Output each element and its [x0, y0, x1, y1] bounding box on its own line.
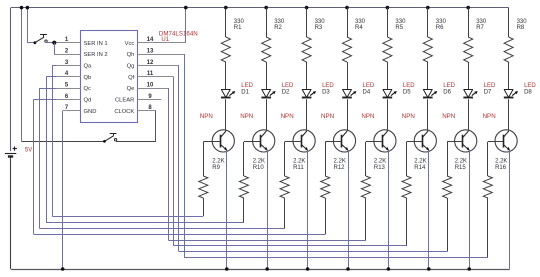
svg-text:Qc: Qc [84, 86, 92, 92]
svg-text:D3: D3 [322, 89, 330, 95]
svg-text:Qf: Qf [128, 75, 135, 81]
svg-text:NPN: NPN [442, 113, 455, 120]
svg-text:D4: D4 [363, 89, 371, 95]
svg-text:CLEAR: CLEAR [115, 98, 134, 104]
svg-text:R1: R1 [234, 25, 242, 31]
svg-text:2.2K: 2.2K [293, 159, 305, 165]
svg-text:5V: 5V [25, 148, 32, 154]
svg-text:R7: R7 [476, 25, 484, 31]
svg-text:R6: R6 [436, 25, 444, 31]
svg-text:2.2K: 2.2K [334, 159, 346, 165]
svg-text:2.2K: 2.2K [374, 159, 386, 165]
svg-text:2.2K: 2.2K [495, 159, 507, 165]
svg-text:NPN: NPN [281, 113, 294, 120]
svg-text:LED: LED [322, 83, 334, 89]
svg-text:R2: R2 [274, 25, 282, 31]
svg-text:R4: R4 [355, 25, 363, 31]
svg-text:Qa: Qa [84, 64, 93, 70]
svg-text:2.2K: 2.2K [455, 159, 467, 165]
svg-text:Qe: Qe [127, 86, 135, 92]
svg-text:NPN: NPN [321, 113, 334, 120]
svg-text:LED: LED [443, 83, 455, 89]
svg-text:R13: R13 [374, 165, 386, 171]
svg-text:Qh: Qh [127, 52, 135, 58]
svg-text:R14: R14 [414, 165, 426, 171]
svg-text:LED: LED [363, 83, 375, 89]
svg-text:R15: R15 [455, 165, 467, 171]
svg-text:D8: D8 [524, 89, 532, 95]
svg-text:R3: R3 [315, 25, 323, 31]
svg-text:2.2K: 2.2K [253, 159, 265, 165]
svg-text:LED: LED [241, 83, 253, 89]
svg-text:NPN: NPN [361, 113, 374, 120]
svg-text:R5: R5 [395, 25, 403, 31]
svg-text:NPN: NPN [200, 113, 213, 120]
svg-text:R12: R12 [334, 165, 346, 171]
svg-text:LED: LED [403, 83, 415, 89]
svg-text:SER IN 1: SER IN 1 [84, 41, 108, 47]
svg-text:GND: GND [84, 109, 97, 115]
svg-text:R9: R9 [212, 165, 220, 171]
svg-text:LED: LED [484, 83, 496, 89]
svg-text:LED: LED [524, 83, 536, 89]
svg-text:NPN: NPN [483, 113, 496, 120]
svg-text:2.2K: 2.2K [414, 159, 426, 165]
svg-text:D2: D2 [282, 89, 290, 95]
svg-text:NPN: NPN [402, 113, 415, 120]
svg-text:LED: LED [282, 83, 294, 89]
svg-text:D7: D7 [484, 89, 492, 95]
svg-text:10: 10 [147, 83, 154, 89]
svg-text:Vcc: Vcc [125, 41, 135, 47]
svg-text:R8: R8 [517, 25, 525, 31]
svg-text:R11: R11 [293, 165, 304, 171]
svg-text:R16: R16 [495, 165, 507, 171]
svg-text:R10: R10 [253, 165, 265, 171]
svg-text:D1: D1 [241, 89, 249, 95]
svg-text:13: 13 [147, 49, 154, 55]
svg-text:CLOCK: CLOCK [114, 109, 134, 115]
svg-text:Qb: Qb [84, 75, 92, 81]
svg-text:D6: D6 [443, 89, 451, 95]
svg-text:D5: D5 [403, 89, 411, 95]
svg-text:2.2K: 2.2K [212, 159, 224, 165]
svg-text:Qd: Qd [84, 98, 92, 104]
svg-text:Qg: Qg [127, 64, 135, 70]
svg-text:NPN: NPN [240, 113, 253, 120]
svg-text:SER IN 2: SER IN 2 [84, 52, 108, 58]
